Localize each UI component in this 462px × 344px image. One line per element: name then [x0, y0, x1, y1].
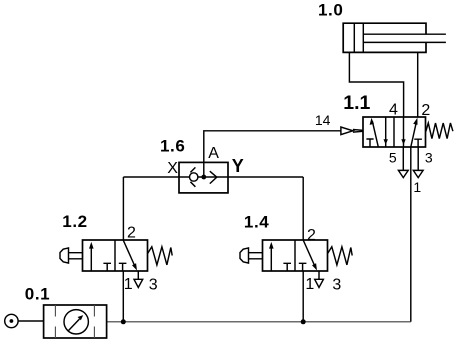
- valve V2 divider: [114, 240, 116, 271]
- svg-text:4: 4: [389, 102, 398, 119]
- valve V1 right square blocked port 3: [414, 139, 422, 147]
- wire valve V3 port 1 down: [302, 271, 304, 322]
- valve V1 pilot port 14 triangle: [341, 127, 353, 135]
- shuttle right seat: [210, 171, 217, 183]
- valve V3 left square flow arrow up: [270, 246, 272, 271]
- wire cylinder right port to valve port 2: [417, 52, 419, 117]
- svg-text:Y: Y: [232, 156, 244, 176]
- valve V2 right square flow 2-3: [123, 241, 134, 267]
- valve V3 return spring: [328, 247, 353, 265]
- valve V1 right square flow arrow 1-2: [411, 121, 417, 147]
- valve V2 exhaust 3: [134, 271, 143, 288]
- valve V1 exhaust 3: [413, 147, 423, 178]
- supply bus wire: [107, 321, 411, 323]
- valve V1 left square flow arrow 1-4: [372, 121, 378, 147]
- valve V3 divider: [294, 240, 296, 271]
- svg-text:2: 2: [127, 225, 136, 242]
- wire cylinder left port to valve port 4: [349, 52, 403, 117]
- svg-text:3: 3: [149, 276, 158, 293]
- wire shuttle A to pilot line: [204, 131, 341, 177]
- valve V1 left square blocked port 5: [366, 139, 373, 147]
- valve V1 divider: [393, 117, 395, 147]
- svg-text:3: 3: [425, 149, 433, 165]
- svg-text:2: 2: [307, 227, 316, 244]
- svg-text:2: 2: [421, 102, 430, 119]
- valve V1 left square flow arrow 2-3: [385, 117, 387, 147]
- wire valve V1 port1 to supply: [410, 147, 412, 322]
- piston rod: [363, 34, 446, 42]
- svg-text:1.2: 1.2: [62, 212, 87, 231]
- svg-text:5: 5: [389, 149, 397, 165]
- svg-text:14: 14: [315, 112, 331, 128]
- wire source to service unit: [18, 320, 43, 322]
- junction supply/V3: [301, 319, 306, 324]
- svg-text:3: 3: [332, 276, 341, 293]
- wire valve V2 port 1 down: [122, 271, 124, 322]
- shuttle valve S1 body: [179, 162, 228, 193]
- pressure gauge: [64, 310, 88, 334]
- valve V3 right square flow 2-3: [303, 241, 314, 267]
- wire Y to valve 1.4 port 2: [302, 177, 304, 240]
- valve V3 right square blocked port 1: [299, 263, 307, 271]
- service unit body: [44, 305, 107, 338]
- service unit divider dashed left: [54, 305, 56, 338]
- valve V1 body: [363, 117, 426, 147]
- gauge needle: [68, 319, 79, 331]
- valve V2 left square blocked port: [103, 263, 111, 271]
- wire X line through shuttle: [123, 176, 303, 178]
- svg-text:1.4: 1.4: [244, 212, 269, 231]
- service unit divider dashed right: [93, 305, 95, 338]
- valve V2 left square flow arrow up: [90, 246, 92, 271]
- valve V2 return spring: [148, 247, 173, 265]
- piston: [353, 23, 355, 52]
- svg-text:A: A: [208, 145, 219, 162]
- svg-text:1.1: 1.1: [343, 92, 370, 114]
- svg-text:1: 1: [305, 276, 314, 293]
- shuttle left seat: [190, 167, 195, 186]
- svg-text:0.1: 0.1: [25, 284, 50, 303]
- valve V1 return spring: [426, 123, 453, 139]
- cylinder C1 body: [343, 23, 426, 52]
- valve V1 exhaust 5: [398, 147, 408, 178]
- wire X to valve 1.2 port 2: [122, 177, 124, 240]
- valve V2 body: [83, 240, 148, 271]
- svg-text:1: 1: [413, 179, 421, 195]
- svg-text:1.0: 1.0: [318, 1, 343, 20]
- svg-text:1: 1: [124, 276, 133, 293]
- svg-text:1.6: 1.6: [160, 136, 185, 155]
- junction node A: [201, 175, 206, 180]
- valve V2 right square blocked port 1: [119, 263, 127, 271]
- valve V1 right square flow arrow 4-5: [403, 117, 405, 147]
- svg-text:X: X: [167, 160, 178, 177]
- shuttle ball: [190, 173, 198, 181]
- junction supply/V2: [121, 319, 126, 324]
- valve V3 left square blocked port: [283, 263, 291, 271]
- valve V2 push button: [60, 248, 69, 263]
- valve V3 exhaust 3: [315, 271, 324, 288]
- valve V3 push button: [240, 248, 249, 263]
- compressed air source: [5, 314, 18, 327]
- valve V3 body: [263, 240, 328, 271]
